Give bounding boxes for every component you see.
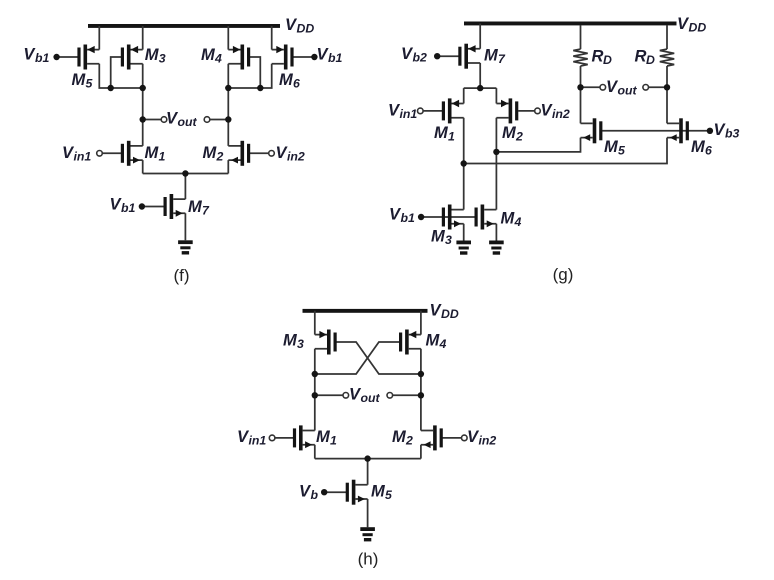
svg-text:M: M <box>188 198 203 216</box>
svg-text:M: M <box>371 483 386 501</box>
svg-text:4: 4 <box>214 52 222 66</box>
svg-text:b1: b1 <box>35 51 50 65</box>
svg-text:2: 2 <box>216 150 224 164</box>
svg-text:b3: b3 <box>725 127 740 141</box>
svg-text:R: R <box>592 48 604 66</box>
svg-text:M: M <box>203 144 218 162</box>
svg-text:M: M <box>431 228 446 246</box>
svg-text:M: M <box>316 428 331 446</box>
svg-text:in2: in2 <box>552 107 570 121</box>
svg-text:M: M <box>279 71 294 89</box>
svg-text:3: 3 <box>159 52 166 66</box>
svg-text:5: 5 <box>618 144 625 158</box>
svg-text:DD: DD <box>441 307 459 321</box>
svg-text:1: 1 <box>159 150 166 164</box>
svg-text:M: M <box>201 46 216 64</box>
svg-text:(h): (h) <box>358 550 379 569</box>
svg-text:3: 3 <box>297 337 304 351</box>
svg-text:7: 7 <box>498 52 506 66</box>
svg-text:R: R <box>635 48 647 66</box>
svg-text:M: M <box>426 332 441 350</box>
svg-text:5: 5 <box>86 77 93 91</box>
svg-text:in2: in2 <box>479 434 497 448</box>
svg-text:in1: in1 <box>249 434 267 448</box>
svg-text:(g): (g) <box>553 265 574 284</box>
svg-text:4: 4 <box>439 337 447 351</box>
svg-text:M: M <box>392 428 407 446</box>
svg-text:7: 7 <box>202 204 210 218</box>
svg-text:b1: b1 <box>401 211 416 225</box>
svg-text:b2: b2 <box>413 51 428 65</box>
svg-text:2: 2 <box>405 434 413 448</box>
svg-text:(f): (f) <box>173 266 189 285</box>
svg-text:6: 6 <box>293 77 300 91</box>
svg-text:D: D <box>646 53 655 67</box>
svg-text:in1: in1 <box>74 150 92 164</box>
svg-text:M: M <box>502 124 517 142</box>
svg-text:DD: DD <box>297 22 315 36</box>
svg-text:M: M <box>604 138 619 156</box>
svg-text:3: 3 <box>445 233 452 247</box>
svg-text:M: M <box>145 144 160 162</box>
svg-text:out: out <box>618 83 638 97</box>
svg-text:1: 1 <box>330 434 337 448</box>
svg-text:out: out <box>361 391 381 405</box>
svg-text:b: b <box>311 488 319 502</box>
svg-text:DD: DD <box>689 21 707 35</box>
svg-text:5: 5 <box>385 488 392 502</box>
svg-text:out: out <box>178 115 198 129</box>
svg-text:4: 4 <box>514 215 522 229</box>
svg-text:b1: b1 <box>121 201 136 215</box>
svg-text:M: M <box>283 332 298 350</box>
svg-text:M: M <box>484 47 499 65</box>
svg-text:M: M <box>145 46 160 64</box>
svg-text:6: 6 <box>705 144 712 158</box>
svg-text:1: 1 <box>448 130 455 144</box>
svg-text:in1: in1 <box>400 107 418 121</box>
svg-text:b1: b1 <box>328 51 343 65</box>
svg-text:M: M <box>72 71 87 89</box>
svg-text:2: 2 <box>515 130 523 144</box>
svg-text:M: M <box>434 124 449 142</box>
svg-text:M: M <box>691 138 706 156</box>
svg-text:D: D <box>603 53 612 67</box>
svg-text:M: M <box>501 210 516 228</box>
svg-text:in2: in2 <box>287 150 305 164</box>
